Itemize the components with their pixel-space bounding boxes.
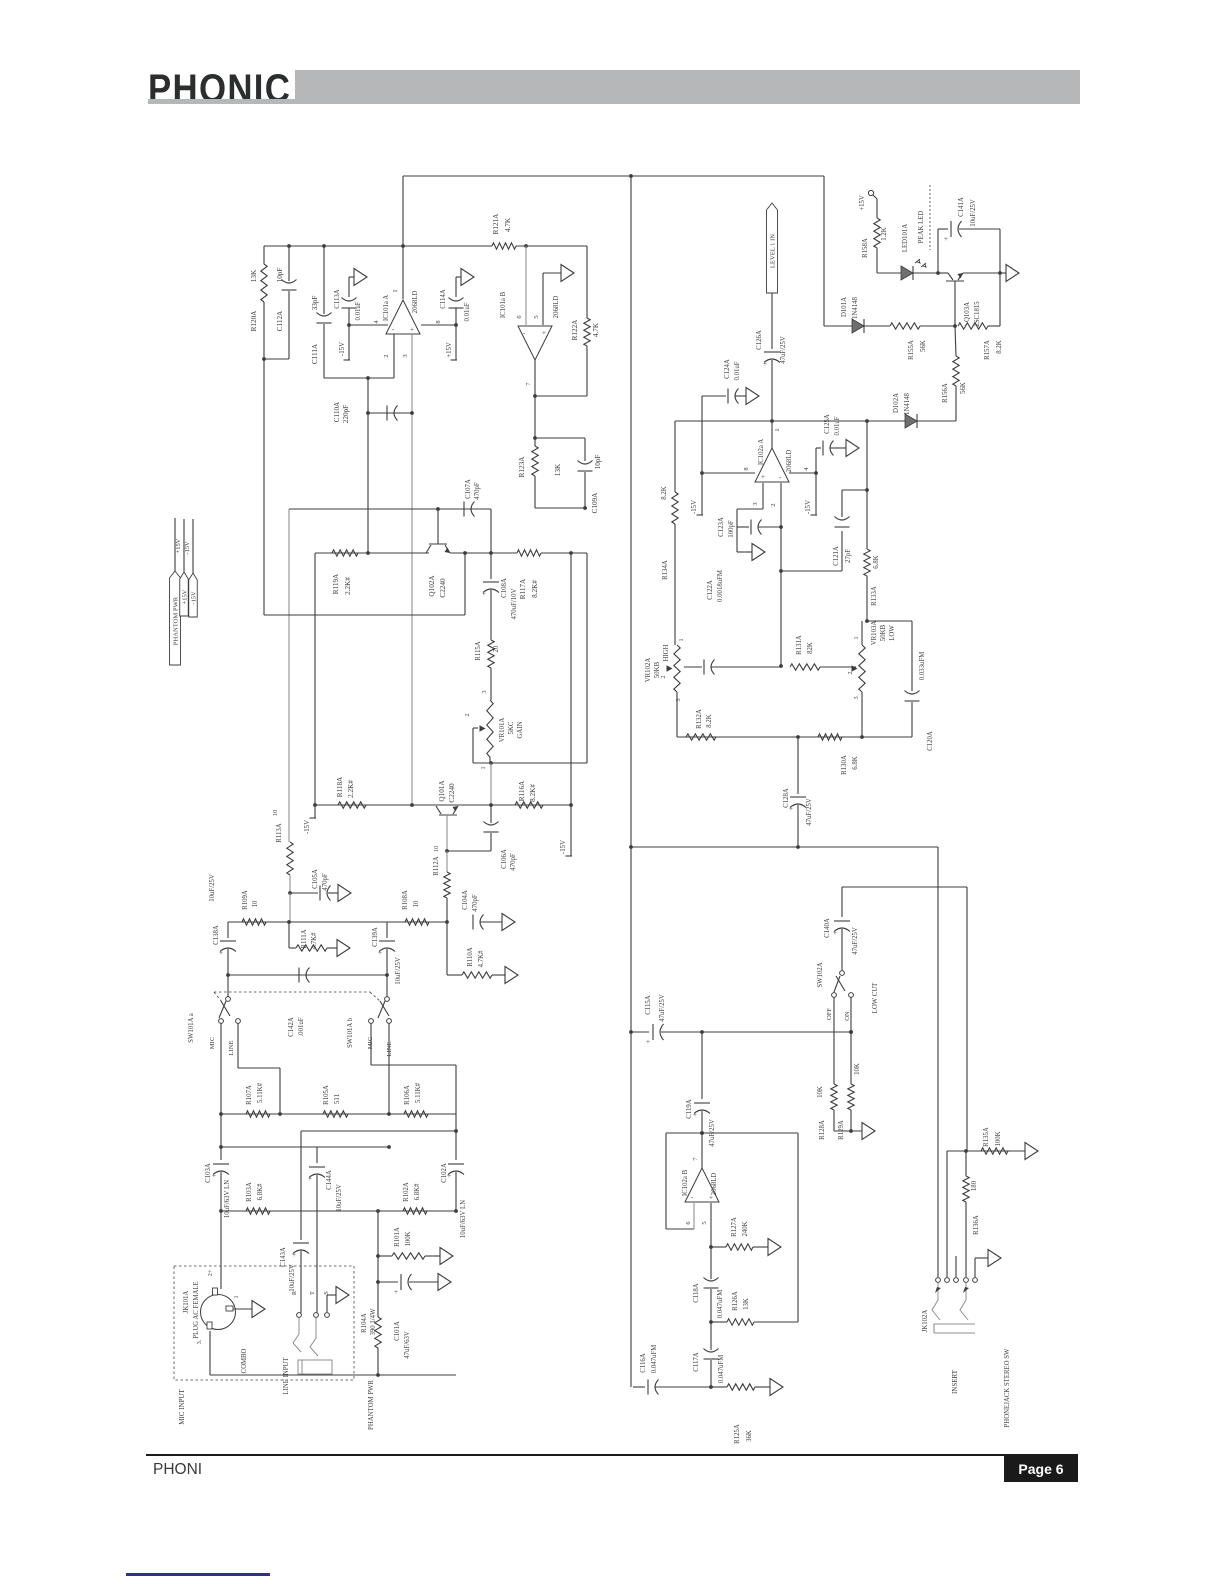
- svg-text:C2240: C2240: [448, 783, 456, 803]
- svg-text:1: 1: [774, 428, 781, 431]
- capacitor C128A: [783, 737, 813, 849]
- svg-text:C123A: C123A: [718, 517, 725, 537]
- pin 5 IC102aB: [701, 1203, 713, 1249]
- wire VR102A bottom: [676, 692, 678, 737]
- capacitor C104A: [462, 890, 502, 929]
- power arrow R135A: [1025, 1143, 1038, 1160]
- svg-text:C105A: C105A: [312, 869, 319, 889]
- header thin bar: [148, 99, 1080, 104]
- pin 6 IC101aB: [516, 246, 526, 325]
- resistor R108A: [402, 890, 429, 925]
- svg-text:1: 1: [678, 638, 685, 641]
- resistor R122A: [535, 246, 600, 396]
- transistor Q101A: [433, 780, 458, 853]
- svg-text:+15V: +15V: [175, 538, 182, 553]
- capacitor C102A: [441, 1131, 467, 1238]
- svg-text:SW101A a: SW101A a: [188, 1013, 195, 1043]
- power arrow R111A: [337, 940, 350, 957]
- svg-text:7: 7: [692, 1157, 699, 1161]
- svg-text:3: 3: [481, 690, 488, 693]
- wire VR102A wiper: [0, 0, 1, 1]
- switch SW102A: [817, 962, 879, 1021]
- wire y1151: [947, 1149, 1025, 1277]
- capacitor C111A: [311, 246, 332, 378]
- svg-text:10: 10: [272, 809, 279, 816]
- svg-text:C126A: C126A: [756, 330, 763, 350]
- svg-text:MIC: MIC: [209, 1036, 216, 1049]
- power arrow R127A: [768, 1239, 781, 1256]
- svg-text:10uF/25V: 10uF/25V: [336, 1184, 343, 1212]
- power arrow C124A: [746, 388, 759, 405]
- pin 1 IC102aA: [772, 421, 781, 448]
- jack LINE INPUT contacts: [291, 1290, 330, 1317]
- svg-text:C112A: C112A: [276, 310, 284, 331]
- svg-text:4: 4: [803, 467, 810, 471]
- svg-text:100K: 100K: [405, 1231, 412, 1246]
- svg-text:C108A: C108A: [501, 578, 508, 598]
- svg-text:+: +: [308, 1175, 312, 1183]
- wire pin7 branch: [533, 396, 537, 440]
- capacitor C107A: [464, 479, 481, 516]
- resistor R107A: [246, 1082, 270, 1117]
- svg-text:VR103A: VR103A: [871, 621, 878, 646]
- svg-text:2: 2: [464, 713, 471, 716]
- svg-text:20: 20: [493, 645, 500, 652]
- svg-text:0.01uF: 0.01uF: [464, 302, 471, 321]
- svg-text:8: 8: [743, 467, 750, 470]
- PHONIC logo: [148, 69, 291, 109]
- wire lowcut ground: [834, 1129, 862, 1133]
- svg-text:+: +: [378, 949, 382, 957]
- connector JK102A: [922, 1278, 977, 1333]
- svg-text:C144A: C144A: [326, 1170, 333, 1190]
- svg-text:R115A: R115A: [475, 641, 482, 660]
- wire rail 737: [677, 735, 912, 739]
- svg-text:+: +: [833, 929, 837, 937]
- svg-text:470pF: 470pF: [510, 853, 517, 871]
- svg-text:10K: 10K: [817, 1086, 824, 1098]
- svg-text:0.01uF: 0.01uF: [734, 361, 741, 380]
- capacitor C144A: [308, 1147, 343, 1313]
- jack spring T: [310, 1318, 318, 1356]
- svg-text:2068LD: 2068LD: [711, 1173, 718, 1196]
- resistor R128A: [817, 997, 837, 1140]
- wire insert return: [966, 887, 968, 1151]
- footer PHONI text: [153, 1461, 202, 1479]
- svg-text:10: 10: [433, 845, 440, 852]
- svg-text:+: +: [482, 590, 486, 598]
- svg-text:10pF: 10pF: [276, 268, 284, 283]
- wire top rail: [403, 175, 824, 177]
- potentiometer VR102A: [667, 645, 681, 692]
- svg-text:LINE INPUT: LINE INPUT: [283, 1357, 290, 1395]
- svg-text:5.11K#: 5.11K#: [257, 1082, 264, 1103]
- wire insert send: [937, 847, 939, 1277]
- svg-text:8.2K#: 8.2K#: [531, 580, 539, 598]
- net flag PHANTOM PWR: [170, 518, 181, 665]
- svg-text:10uF/25V: 10uF/25V: [970, 199, 977, 227]
- svg-text:10pF: 10pF: [594, 455, 602, 470]
- svg-text:C102A: C102A: [441, 1163, 448, 1183]
- svg-text:470pF: 470pF: [322, 873, 329, 891]
- svg-text:VR102A: VR102A: [645, 658, 652, 683]
- svg-text:3.: 3.: [196, 1339, 203, 1344]
- capacitor C122A: [684, 570, 781, 674]
- footer blue line: [126, 1573, 270, 1576]
- svg-text:R105A: R105A: [323, 1085, 330, 1105]
- svg-text:10K: 10K: [854, 1063, 861, 1075]
- svg-text:0.047uFM: 0.047uFM: [651, 1345, 658, 1374]
- svg-text:R132A: R132A: [696, 709, 703, 729]
- svg-text:R127A: R127A: [731, 1217, 738, 1237]
- wire LED feed: [877, 272, 901, 274]
- terminal +15V: [859, 190, 874, 210]
- capacitor C103A: [205, 1114, 231, 1218]
- diode D102A: [893, 392, 917, 428]
- wire rail 1131: [301, 1114, 458, 1133]
- resistor R111A: [289, 922, 337, 951]
- svg-text:PHONEJACK STEREO SW: PHONEJACK STEREO SW: [1004, 1348, 1011, 1428]
- resistor R131A: [790, 635, 820, 670]
- net flag +15V: [180, 519, 189, 616]
- svg-text:+: +: [212, 1172, 216, 1180]
- resistor R112A: [433, 851, 450, 922]
- resistor R115A: [475, 640, 500, 700]
- svg-text:R129A: R129A: [838, 1120, 845, 1140]
- op-amp IC101aB: [500, 291, 560, 360]
- resistor R126A: [711, 1291, 798, 1325]
- svg-text:C128A: C128A: [783, 788, 790, 808]
- power arrow C105A: [338, 885, 351, 902]
- svg-text:LED101A: LED101A: [902, 224, 909, 252]
- svg-text:0.01uF: 0.01uF: [355, 301, 362, 320]
- svg-text:IC101a A: IC101a A: [383, 295, 390, 321]
- resistor R127A: [711, 1217, 768, 1250]
- svg-text:3: 3: [675, 698, 682, 701]
- wire rail 1211: [221, 1209, 456, 1213]
- power arrow C123A: [752, 544, 765, 561]
- resistor R120A: [250, 246, 267, 331]
- jack body JK102A: [934, 1324, 975, 1333]
- svg-text:R117A: R117A: [519, 578, 527, 599]
- svg-text:8.2K: 8.2K: [706, 714, 713, 727]
- op-amp IC101aA: [383, 291, 420, 334]
- resistor R121A: [403, 213, 587, 249]
- svg-text:5: 5: [701, 1221, 708, 1224]
- svg-text:33pF: 33pF: [311, 296, 319, 311]
- svg-text:5.11K#: 5.11K#: [415, 1082, 422, 1103]
- resistor R134A: [661, 421, 678, 645]
- svg-text:OFF: OFF: [826, 1008, 833, 1020]
- svg-text:2.2K#: 2.2K#: [344, 577, 352, 595]
- svg-text:C109A: C109A: [591, 492, 599, 514]
- svg-text:2068LD: 2068LD: [786, 450, 793, 473]
- wire y763 gain loop: [473, 763, 587, 805]
- resistor R110A: [447, 922, 505, 978]
- svg-text:4.7K#: 4.7K#: [478, 950, 485, 967]
- resistor R136A: [963, 1151, 980, 1277]
- resistor R123A: [518, 438, 562, 508]
- wire rail-to-detector: [823, 176, 825, 326]
- dashed input box: [174, 1266, 354, 1380]
- wire detector corner: [998, 229, 1002, 326]
- wire C108A branch: [490, 509, 492, 579]
- resistor R157A: [958, 323, 1003, 360]
- svg-text:3: 3: [853, 696, 860, 699]
- svg-text:390 1/4W: 390 1/4W: [370, 1308, 377, 1336]
- svg-text:100pF: 100pF: [728, 520, 735, 538]
- svg-text:C114A: C114A: [440, 289, 447, 308]
- resistor R118A: [336, 776, 366, 808]
- power arrow JK102A sleeve: [988, 1250, 1001, 1267]
- wire y621: [867, 620, 912, 622]
- svg-text:82K: 82K: [807, 642, 814, 654]
- svg-text:R134A: R134A: [662, 560, 669, 580]
- capacitor C143A: [280, 1131, 309, 1313]
- svg-text:2: 2: [770, 503, 777, 506]
- pin 7 IC102aB: [692, 1133, 702, 1168]
- net flag -15V: [189, 519, 198, 617]
- svg-text:10uF/25V: 10uF/25V: [209, 874, 216, 902]
- wire -15V stub R116A: [560, 553, 572, 856]
- wire emitter ground: [1000, 272, 1006, 274]
- svg-text:4.7K#: 4.7K#: [311, 932, 318, 949]
- capacitor C114A: [440, 277, 471, 360]
- svg-text:R121A: R121A: [492, 213, 500, 235]
- svg-text:47uF/63V: 47uF/63V: [404, 1331, 411, 1359]
- capacitor C110A: [333, 401, 414, 423]
- svg-text:1: 1: [392, 289, 399, 292]
- power arrow R110A: [505, 967, 518, 984]
- wire y571: [781, 570, 842, 572]
- svg-text:10uF/63V LN: 10uF/63V LN: [460, 1200, 467, 1238]
- pin 1 IC101aA: [392, 289, 399, 292]
- svg-text:180: 180: [971, 1180, 978, 1191]
- jack body: [298, 1360, 332, 1374]
- capacitor C112A: [262, 246, 296, 361]
- power arrow R101A: [440, 1248, 453, 1265]
- svg-text:6: 6: [685, 1221, 692, 1224]
- wire -15V stub R118A: [304, 553, 316, 834]
- label PHONEJACK STEREO SW: [1004, 1348, 1011, 1428]
- svg-text:R106A: R106A: [404, 1085, 411, 1105]
- svg-text:R122A: R122A: [571, 319, 579, 341]
- svg-text:36K: 36K: [746, 1430, 753, 1442]
- svg-text:R: R: [291, 1290, 298, 1295]
- svg-text:JK102A: JK102A: [922, 1310, 929, 1333]
- svg-text:IC102a B: IC102a B: [682, 1169, 689, 1196]
- wire wiper VR103A: [820, 666, 856, 668]
- svg-text:+: +: [542, 329, 546, 337]
- svg-text:R136A: R136A: [973, 1215, 980, 1235]
- svg-text:13K: 13K: [743, 1298, 750, 1310]
- svg-text:C143A: C143A: [280, 1247, 287, 1267]
- wire long bus: [629, 176, 633, 1387]
- wire rail 553 end: [541, 551, 587, 555]
- svg-text:HIGH: HIGH: [663, 644, 670, 661]
- capacitor C123A: [718, 509, 781, 552]
- wire gray branch R113A: [288, 509, 290, 842]
- power arrow +15V C114A: [461, 269, 474, 286]
- resistor R155A: [890, 323, 957, 360]
- svg-text:+: +: [761, 473, 765, 481]
- svg-text:PHANTOM PWR: PHANTOM PWR: [368, 1380, 375, 1430]
- wire XLR pin2 feed: [220, 1211, 222, 1289]
- wire XLR pin3 drop: [209, 1331, 211, 1375]
- svg-text:R135A: R135A: [983, 1127, 990, 1147]
- footer page box: [1004, 1456, 1078, 1482]
- svg-text:10uF/63V LN: 10uF/63V LN: [224, 1180, 231, 1218]
- svg-text:R102A: R102A: [403, 1182, 410, 1202]
- capacitor C117A: [693, 1322, 725, 1389]
- wire rail 553 right: [450, 551, 517, 555]
- jack tip contact 1: [932, 1283, 941, 1320]
- svg-text:R125A: R125A: [734, 1424, 741, 1444]
- wire LINE-b drop: [388, 1023, 390, 1114]
- label -15V pin4 IC101aA: [339, 342, 346, 356]
- resistor R101A: [376, 1227, 440, 1259]
- wire inverting branch: [367, 378, 369, 553]
- svg-text:C117A: C117A: [693, 1352, 700, 1371]
- labels R117A: [519, 578, 539, 599]
- svg-text:-15V: -15V: [191, 591, 198, 605]
- svg-text:C115A: C115A: [645, 995, 652, 1014]
- wire R123A bottom rail: [535, 507, 587, 509]
- wire rail 805: [313, 803, 573, 807]
- svg-text:R101A: R101A: [394, 1227, 401, 1247]
- svg-text:LINE: LINE: [228, 1040, 235, 1055]
- svg-text:+: +: [944, 235, 948, 243]
- svg-text:C116A: C116A: [640, 1353, 647, 1372]
- wire bottom rail 1375: [210, 1374, 456, 1376]
- svg-text:R157A: R157A: [984, 340, 991, 360]
- svg-text:+: +: [763, 360, 767, 368]
- svg-text:C101A: C101A: [394, 1321, 401, 1341]
- svg-text:C107A: C107A: [465, 479, 472, 499]
- svg-text:13K: 13K: [554, 463, 562, 476]
- svg-text:.001uF: .001uF: [298, 1017, 305, 1036]
- svg-text:7: 7: [525, 382, 532, 386]
- svg-text:2: 2: [383, 354, 390, 357]
- svg-text:56K: 56K: [960, 382, 967, 394]
- wire MIC-b drop: [371, 1023, 456, 1114]
- svg-text:10: 10: [413, 900, 420, 907]
- svg-text:R107A: R107A: [246, 1085, 253, 1105]
- pin 2 IC102aA: [770, 483, 783, 668]
- wire tone bus x867: [866, 421, 868, 549]
- label PHANTOM PWR: [368, 1380, 375, 1430]
- svg-text:6: 6: [516, 315, 523, 318]
- svg-text:SW102A: SW102A: [817, 962, 824, 987]
- svg-text:10uF/25V: 10uF/25V: [289, 1264, 296, 1292]
- wire loop y615: [264, 553, 465, 615]
- svg-text:470uF/10V: 470uF/10V: [511, 588, 518, 619]
- svg-text:LEVEL 1 IN: LEVEL 1 IN: [770, 234, 777, 268]
- capacitor C126A: [756, 293, 787, 423]
- svg-text:R133A: R133A: [871, 586, 878, 606]
- capacitor C109A: [535, 438, 602, 513]
- svg-text:R156A: R156A: [942, 383, 949, 403]
- header gray bar: [295, 70, 1080, 103]
- resistor R119A: [332, 550, 370, 595]
- svg-text:2+: 2+: [207, 1269, 214, 1276]
- svg-text:2SC1815: 2SC1815: [974, 301, 981, 327]
- power arrow C125A: [846, 440, 859, 457]
- capacitor C141A: [938, 197, 1000, 273]
- svg-text:100K: 100K: [995, 1131, 1002, 1146]
- pin 3 IC101aA: [402, 334, 412, 805]
- resistor R158A: [862, 195, 888, 273]
- resistor R104A: [361, 1211, 381, 1377]
- svg-text:C139A: C139A: [372, 927, 379, 947]
- pin 4 IC101aA: [347, 320, 388, 327]
- stub -15V pin4: [805, 473, 817, 515]
- capacitor C124A: [702, 359, 746, 473]
- svg-text:-15V: -15V: [184, 541, 191, 555]
- svg-text:27pF: 27pF: [845, 549, 852, 563]
- svg-text:R111A: R111A: [301, 929, 308, 948]
- svg-text:1: 1: [853, 636, 860, 639]
- capacitor C118A: [693, 1247, 724, 1324]
- svg-text:2: 2: [847, 671, 854, 674]
- label PEAK LED: [918, 185, 930, 250]
- capacitor C121A: [833, 488, 869, 571]
- svg-text:S: S: [323, 1291, 330, 1295]
- svg-text:PEAK LED: PEAK LED: [918, 211, 925, 244]
- wire rail 847: [631, 846, 938, 848]
- svg-text:R103A: R103A: [246, 1182, 253, 1202]
- power arrow XLR pin1: [252, 1301, 265, 1318]
- svg-text:8: 8: [435, 320, 442, 323]
- power arrow +15V pin5: [561, 265, 574, 282]
- svg-text:C2240: C2240: [439, 578, 447, 598]
- transistor Q102A: [426, 509, 450, 598]
- capacitor C101A: [376, 1274, 438, 1359]
- svg-text:+15V: +15V: [446, 342, 453, 358]
- wire loop x587: [586, 553, 588, 763]
- svg-text:D102A: D102A: [893, 393, 900, 413]
- svg-text:LOW CUT: LOW CUT: [872, 982, 879, 1013]
- svg-text:C111A: C111A: [311, 343, 319, 364]
- jack ring stub: [955, 1256, 957, 1277]
- svg-text:1.2K: 1.2K: [881, 227, 888, 240]
- label COMBO: [241, 1348, 248, 1373]
- diode LED101A: [901, 224, 926, 280]
- svg-text:47uF/25V: 47uF/25V: [806, 798, 813, 826]
- svg-text:C118A: C118A: [693, 1283, 700, 1302]
- pin 2 IC101aA: [383, 334, 394, 378]
- label -15V rail: [184, 541, 191, 555]
- svg-text:6.8K#: 6.8K#: [414, 1183, 421, 1200]
- power arrow C101A: [438, 1274, 451, 1291]
- svg-text:4.7K: 4.7K: [592, 322, 600, 337]
- svg-text:R158A: R158A: [862, 238, 869, 258]
- svg-text:0.01uF: 0.01uF: [834, 416, 841, 435]
- capacitor C106A: [447, 805, 517, 871]
- connector JK101A XLR: [183, 1269, 240, 1344]
- svg-text:C103A: C103A: [205, 1163, 212, 1183]
- svg-text:3: 3: [402, 354, 409, 357]
- wire output feedback rail: [264, 244, 403, 248]
- svg-text:+: +: [410, 326, 414, 334]
- power arrow Q103A emitter: [1006, 265, 1019, 282]
- wire rail 1147: [219, 1145, 391, 1149]
- svg-text:-15V: -15V: [304, 820, 311, 834]
- svg-text:8.2K: 8.2K: [661, 486, 668, 499]
- resistor R135A: [981, 1127, 1008, 1154]
- label MIC INPUT: [178, 1388, 186, 1424]
- capacitor C116A: [633, 1345, 711, 1395]
